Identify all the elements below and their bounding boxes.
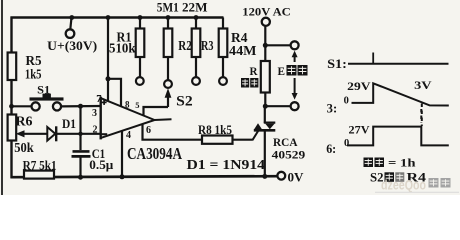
- R6 wiper arrow: [16, 130, 25, 137]
- svg-text:510k: 510k: [109, 40, 136, 55]
- wire pin 7 from top rail: [107, 18, 109, 101]
- caption time = 1h: [364, 158, 374, 168]
- svg-text:44M: 44M: [229, 43, 257, 58]
- svg-text:D1: D1: [62, 117, 76, 131]
- svg-text:S2: S2: [176, 94, 193, 110]
- svg-text:3:: 3:: [327, 101, 338, 115]
- svg-text:3V: 3V: [414, 80, 432, 92]
- page left border frame: [1, 0, 3, 195]
- svg-text:R3: R3: [201, 38, 214, 53]
- svg-text:= 1h: = 1h: [388, 156, 416, 170]
- resistor R3: [195, 18, 197, 29]
- resistor R4 timing: [222, 18, 224, 29]
- switch S1 actuator bar: [30, 97, 64, 100]
- node junction S1 line on left rail: [9, 104, 14, 109]
- svg-text:4: 4: [126, 130, 131, 141]
- diode D1: [47, 127, 55, 141]
- terminal E output top: [291, 41, 299, 49]
- node junction rail R1: [138, 15, 143, 20]
- svg-text:S1:: S1:: [327, 56, 347, 71]
- node junction bottom of load: [263, 104, 268, 109]
- svg-text:CA3094A: CA3094A: [127, 144, 182, 163]
- wire S1 line segment 1: [12, 105, 32, 107]
- svg-text:U+(30V): U+(30V): [47, 39, 97, 53]
- wire apex stub: [155, 118, 172, 121]
- svg-text:22M: 22M: [182, 0, 208, 14]
- wire pin 6 output step: [143, 124, 203, 139]
- wire D1 cathode to op-amp pin2: [56, 133, 100, 135]
- load label fuzai: [241, 78, 249, 88]
- op-amp U1 CA3094A: [99, 97, 101, 140]
- node junction at x80 on D1 line: [78, 132, 82, 136]
- wire pin 8 branch: [108, 79, 121, 106]
- switch S1 pushbutton contacts: [31, 102, 39, 110]
- svg-text:R7 5k1: R7 5k1: [23, 158, 57, 172]
- svg-text:5: 5: [135, 100, 139, 110]
- op-amp minus sign: [102, 133, 108, 135]
- svg-text:5M1: 5M1: [157, 0, 179, 14]
- waveform 6 trace: [347, 127, 449, 146]
- op-amp plus sign: [102, 101, 107, 103]
- node junction at x80 on S1 line: [78, 104, 83, 109]
- svg-text:3: 3: [92, 108, 97, 119]
- wire triac gate diagonal: [252, 131, 258, 140]
- waveform 3 trace: [352, 83, 449, 105]
- svg-text:40529: 40529: [272, 148, 306, 162]
- potentiometer R6: [8, 115, 17, 141]
- waveform 6 dashed marker: [420, 109, 422, 123]
- svg-text:D1 = 1N914: D1 = 1N914: [187, 157, 266, 172]
- wire left rail mid: [10, 80, 12, 115]
- resistor R5: [8, 53, 17, 81]
- svg-text:0V: 0V: [288, 170, 305, 185]
- wire left rail upper: [10, 17, 12, 54]
- svg-text:7: 7: [96, 94, 101, 105]
- svg-text:27V: 27V: [349, 122, 370, 136]
- svg-text:R2: R2: [178, 38, 192, 53]
- waveform S1 trace: [348, 63, 449, 65]
- resistor R1: [139, 18, 141, 29]
- svg-text:0.5μ: 0.5μ: [89, 157, 114, 172]
- wire left rail lower: [10, 141, 12, 179]
- node junction top of load: [263, 43, 268, 48]
- svg-text:0: 0: [344, 138, 349, 149]
- svg-text:R: R: [250, 64, 258, 78]
- svg-text:S1: S1: [37, 85, 50, 97]
- wire S1 line segment 2: [61, 105, 100, 108]
- capacitor C1: [73, 150, 90, 153]
- terminal E output bottom: [291, 102, 299, 110]
- svg-text:R6: R6: [16, 114, 33, 129]
- E output arrows and label: [292, 51, 298, 58]
- waveform S1 tick: [372, 53, 374, 64]
- svg-text:0: 0: [344, 95, 349, 106]
- svg-text:E: E: [278, 64, 286, 78]
- svg-text:2: 2: [93, 124, 98, 135]
- svg-text:8: 8: [125, 99, 130, 109]
- svg-text:120V AC: 120V AC: [242, 5, 290, 19]
- wire to E output bottom: [265, 105, 290, 107]
- resistor R7: [24, 171, 54, 179]
- terminal U+: [66, 29, 75, 38]
- node junction rail R3: [194, 15, 199, 20]
- terminal 0V: [277, 172, 285, 180]
- svg-text:6: 6: [146, 125, 151, 136]
- wire 120VAC down: [264, 26, 266, 47]
- svg-text:29V: 29V: [347, 79, 371, 93]
- node junction C1 on bottom rail: [78, 175, 83, 180]
- node junction rail R2: [166, 15, 171, 20]
- wire bottom rail: [11, 176, 278, 177]
- wire R6 wiper to D1: [22, 133, 48, 135]
- wire R8 to triac gate: [233, 139, 253, 141]
- triac RCA 40529: [264, 106, 266, 123]
- load resistor R: [264, 45, 266, 61]
- wire top rail: [11, 16, 224, 19]
- svg-text:6:: 6:: [326, 142, 336, 156]
- svg-text:R8 1k5: R8 1k5: [198, 123, 232, 137]
- wire pin 4 to bottom rail: [121, 131, 123, 178]
- resistor R2: [167, 18, 169, 29]
- wire vertical x80 down to D1 line: [79, 106, 81, 150]
- resistor R8: [202, 136, 233, 144]
- wire S2 to pin 5: [144, 107, 169, 116]
- svg-text:dzeeQoo: dzeeQoo: [381, 178, 426, 193]
- waveform 3V dashed marker: [421, 104, 423, 127]
- svg-text:1k5: 1k5: [25, 67, 42, 82]
- node junction pin7/pin8 branch: [106, 76, 111, 81]
- switch S2 wiper arrow: [165, 88, 172, 98]
- svg-text:50k: 50k: [14, 140, 34, 155]
- wire to E output top: [265, 44, 290, 46]
